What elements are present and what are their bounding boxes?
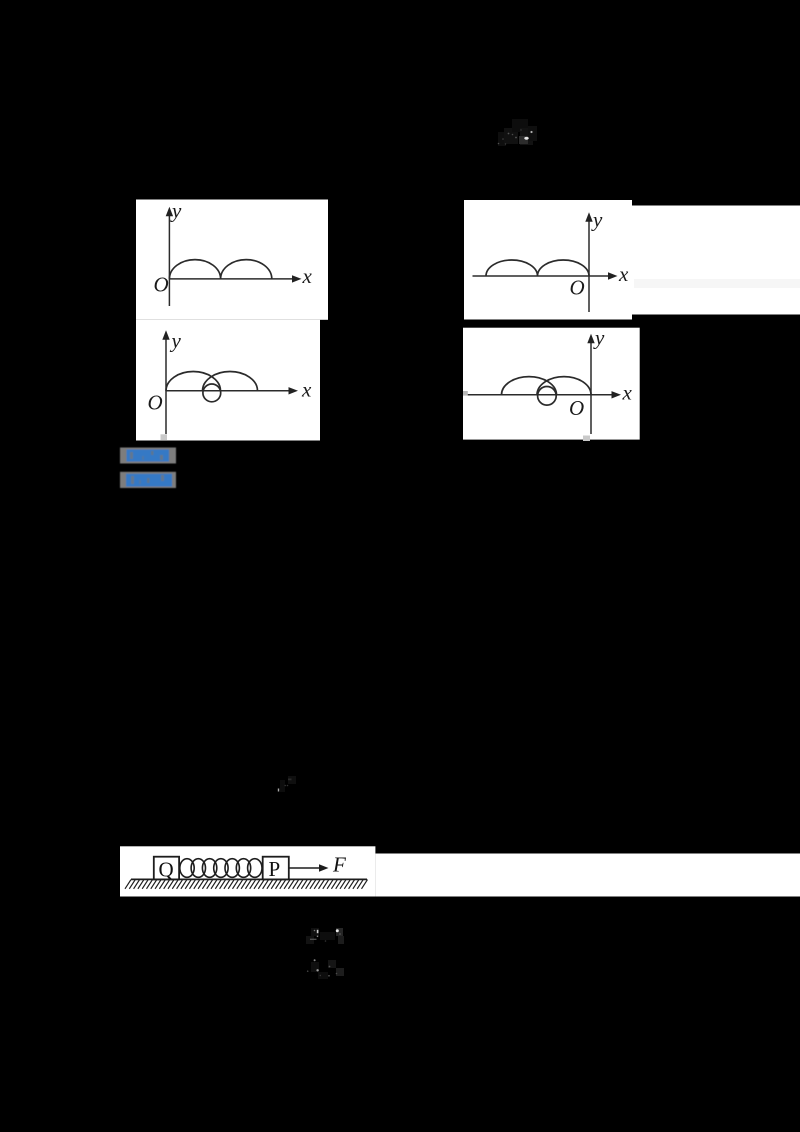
x-axis arrowhead D xyxy=(612,391,622,398)
force F arrow xyxy=(289,867,322,869)
x-axis A xyxy=(169,278,295,280)
white strip left part xyxy=(120,846,375,896)
svg-text:O: O xyxy=(154,272,169,296)
loop circle D xyxy=(538,387,557,406)
loop circle C xyxy=(203,384,221,402)
y-axis arrowhead B xyxy=(585,212,592,222)
panel C white box xyxy=(136,320,320,441)
ground line xyxy=(131,878,367,880)
svg-text:F: F xyxy=(332,853,346,877)
grey tag box 1 xyxy=(120,448,176,464)
svg-text:P: P xyxy=(269,857,281,881)
panel B white extension right xyxy=(632,206,800,315)
panel D white box xyxy=(463,328,640,440)
block Q xyxy=(154,857,179,880)
svg-text:Q: Q xyxy=(159,857,174,881)
spring coils xyxy=(180,859,262,878)
panel B white box xyxy=(464,200,632,320)
cycloid arches B xyxy=(486,260,589,276)
x-axis arrowhead B xyxy=(608,272,618,279)
panel A white box xyxy=(136,200,328,320)
x-axis arrowhead C xyxy=(289,387,299,394)
block P xyxy=(263,857,289,880)
faint smudge lower 2 (formula residue) xyxy=(307,959,344,979)
faint grey band in extension xyxy=(634,279,800,288)
grey handle bottom of C xyxy=(161,434,168,440)
faint smudge mid (formula residue) xyxy=(278,776,296,792)
grey handle left edge of D xyxy=(463,391,468,396)
faint smudge top (formula residue) xyxy=(498,119,537,146)
svg-text:y: y xyxy=(170,329,182,353)
looped cycloid arches C xyxy=(166,372,221,391)
looped cycloid arches D xyxy=(502,377,557,395)
svg-text:x: x xyxy=(301,378,312,402)
y-axis B xyxy=(588,220,590,313)
y-axis C xyxy=(165,338,167,435)
y-axis arrowhead D xyxy=(587,334,594,344)
svg-text:y: y xyxy=(591,208,603,232)
cycloid arches A xyxy=(169,260,271,279)
svg-text:y: y xyxy=(170,198,182,222)
x-axis C xyxy=(166,390,292,392)
svg-text:x: x xyxy=(618,262,629,286)
x-axis B xyxy=(473,275,612,277)
svg-text:y: y xyxy=(593,326,605,350)
x-axis arrowhead A xyxy=(292,275,302,282)
svg-text:x: x xyxy=(302,264,313,288)
x-axis D xyxy=(468,394,616,396)
svg-text:O: O xyxy=(570,276,585,300)
ground hatching xyxy=(125,880,368,889)
svg-text:O: O xyxy=(148,391,163,415)
blue fill tag 1 xyxy=(127,450,170,462)
y-axis D xyxy=(590,341,592,434)
grey handle bottom of D xyxy=(583,436,590,442)
y-axis arrowhead A xyxy=(166,207,173,217)
white strip right part xyxy=(375,854,800,897)
grey tag box 2 xyxy=(120,472,176,488)
y-axis A xyxy=(168,214,170,306)
svg-text:x: x xyxy=(622,381,633,405)
svg-text:O: O xyxy=(569,396,584,420)
y-axis arrowhead C xyxy=(162,330,169,340)
blue fill tag 2 xyxy=(126,474,172,487)
faint smudge lower 1 (formula residue) xyxy=(306,928,344,944)
